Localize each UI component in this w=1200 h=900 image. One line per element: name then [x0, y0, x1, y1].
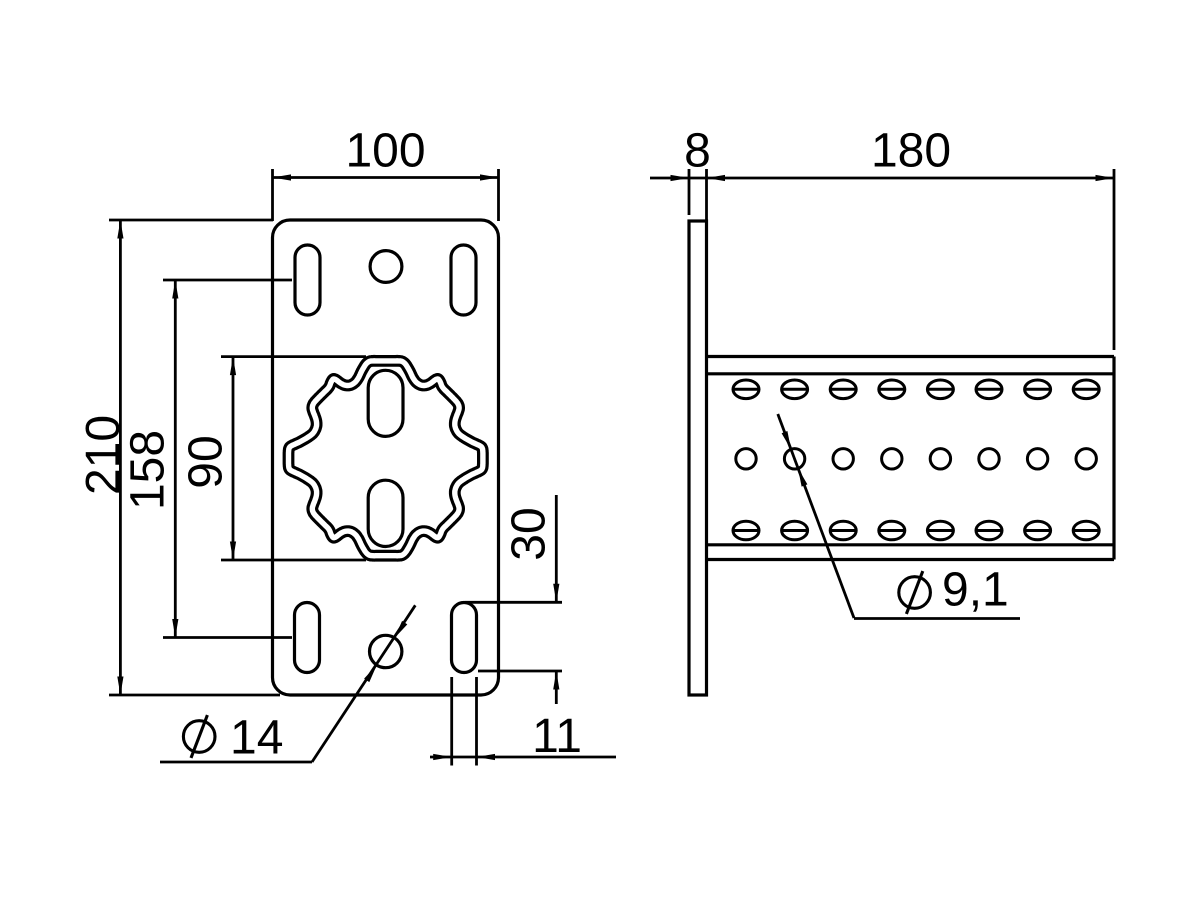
star inner bottom slot: [368, 480, 403, 546]
dim 90 line: [232, 357, 235, 560]
svg-text:180: 180: [871, 125, 951, 178]
bottom-left slot: [295, 603, 320, 673]
dim 11 extension lines: [452, 677, 477, 766]
bottom row slotted holes: [733, 521, 1099, 540]
dim 210 line: [119, 220, 122, 695]
svg-text:11: 11: [532, 710, 582, 763]
svg-text:30: 30: [503, 507, 556, 560]
star inner top slot: [368, 370, 403, 436]
star-shaped motor cutout (double contour): [289, 361, 483, 556]
svg-text:9,1: 9,1: [942, 564, 1009, 617]
svg-text:8: 8: [684, 125, 711, 178]
top-right slot: [451, 245, 476, 315]
bracket plate front view outline: [273, 220, 499, 695]
side plate outline: [689, 221, 707, 695]
leader d9.1: [778, 414, 1020, 619]
dim 90 extension lines: [221, 357, 366, 560]
channel outline: [707, 357, 1115, 560]
dim 30 extension lines: [465, 602, 562, 671]
bottom-right slot: [452, 603, 477, 673]
dim 30 line tails: [555, 495, 558, 704]
dim 11 line: [430, 756, 616, 759]
top row slotted holes: [733, 380, 1099, 399]
dim 100 extension lines: [273, 169, 499, 221]
dim 210 extension lines: [109, 220, 280, 695]
svg-text:100: 100: [345, 125, 425, 178]
svg-text:14: 14: [230, 712, 283, 765]
top-left slot: [295, 245, 320, 315]
middle row holes d9.1: [736, 449, 1097, 469]
top-center hole: [370, 251, 402, 283]
svg-text:158: 158: [122, 430, 175, 510]
label d9.1: [899, 571, 931, 614]
label d14: [183, 715, 215, 758]
svg-text:90: 90: [180, 435, 233, 488]
bottom hole d14: [370, 635, 402, 667]
leader d14: [160, 605, 415, 762]
dim 158 line: [174, 280, 177, 638]
dim 8 and 180 extension lines: [689, 169, 1114, 350]
dim 100 line: [273, 176, 499, 179]
dim 158 extension lines: [163, 280, 292, 638]
dim line 8/180: [650, 177, 1114, 180]
